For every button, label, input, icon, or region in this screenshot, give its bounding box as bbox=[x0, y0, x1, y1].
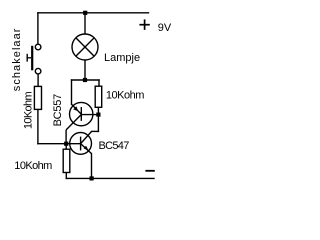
wire horizontal to node C and Q2 base bbox=[38, 143, 81, 145]
svg-text:BC547: BC547 bbox=[99, 140, 130, 152]
wire left drop to switch bbox=[37, 13, 39, 44]
wire resistor R2 bottom to node B bbox=[97, 107, 99, 114]
wire resistor R1 down bbox=[37, 109, 39, 143]
transistor Q2 BC547 bbox=[70, 131, 92, 154]
svg-text:Lampje: Lampje bbox=[104, 52, 140, 64]
junction dot node A bbox=[83, 78, 87, 82]
wire lamp top lead bbox=[84, 13, 86, 34]
resistor R1 bbox=[34, 86, 41, 109]
wire horizontal below lamp bbox=[72, 79, 100, 81]
resistor R2 bbox=[95, 86, 102, 107]
switch S1 bbox=[27, 44, 41, 74]
wire top positive rail bbox=[38, 12, 149, 14]
junction dot top rail bbox=[83, 11, 87, 15]
svg-text:schakelaar: schakelaar bbox=[11, 27, 23, 91]
wire resistor R3 to ground rail bbox=[65, 173, 67, 179]
svg-text:BC557: BC557 bbox=[52, 94, 64, 127]
battery minus terminal bbox=[145, 170, 154, 172]
svg-text:9V: 9V bbox=[158, 22, 172, 34]
junction dot node D bbox=[90, 176, 94, 180]
wire jog to Q2 collector bbox=[92, 130, 99, 132]
wire switch to resistor R1 bbox=[37, 74, 39, 86]
transistor Q1 BC557 bbox=[66, 102, 93, 143]
wire Q2 emitter drop bbox=[91, 154, 93, 179]
wire node C to resistor R3 bbox=[65, 144, 67, 150]
svg-text:10Kohm: 10Kohm bbox=[14, 160, 52, 172]
junction dot node C bbox=[64, 142, 68, 146]
wire bottom negative rail bbox=[66, 177, 154, 179]
wire node B down bbox=[97, 115, 99, 132]
resistor R3 bbox=[63, 149, 70, 172]
wire down into resistor R2 bbox=[98, 80, 100, 86]
lamp bbox=[72, 34, 98, 60]
junction dot node B bbox=[96, 113, 100, 117]
svg-text:10Kohm: 10Kohm bbox=[22, 92, 34, 130]
wire emitter drop Q1 bbox=[71, 80, 73, 104]
svg-text:10Kohm: 10Kohm bbox=[106, 90, 144, 102]
wire lamp bottom lead bbox=[84, 60, 86, 80]
battery plus terminal bbox=[139, 19, 149, 30]
wire base lead Q1 bbox=[81, 114, 98, 116]
